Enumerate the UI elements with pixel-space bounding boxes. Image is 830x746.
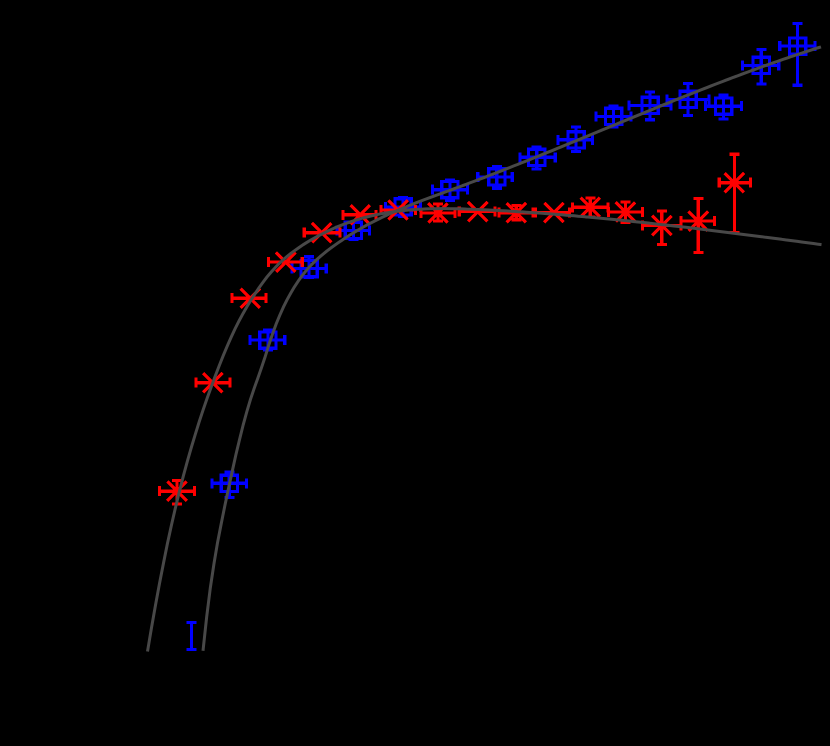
- blue data point B4: square marker with xy error bars: [292, 257, 326, 278]
- blue lone y-error bar B1: [187, 623, 197, 650]
- blue data point B16: square marker with xy error bars: [780, 24, 815, 86]
- blue data point B9: square marker with xy error bars: [520, 147, 555, 169]
- blue data point B13: square marker with xy error bars: [667, 84, 709, 116]
- red data point R13: X marker with xy error bars: [609, 202, 643, 223]
- red data point R14: X marker with xy error bars: [643, 211, 681, 245]
- blue data point B8: square marker with xy error bars: [478, 167, 513, 188]
- red data point R8: X marker with xy error bars: [421, 203, 455, 222]
- blue data point B2: square marker with xy error bars: [212, 472, 247, 498]
- blue data point B10: square marker with xy error bars: [558, 127, 593, 152]
- blue data point B7: square marker with xy error bars: [433, 180, 468, 201]
- red data point R9: X marker with xy error bars: [459, 202, 495, 221]
- red data point R6: X marker with xy error bars: [343, 205, 376, 224]
- red data point R12: X marker with xy error bars: [573, 198, 609, 217]
- red data point R7: X marker with xy error bars: [381, 200, 416, 219]
- red data point R4: X marker with xy error bars: [269, 252, 303, 271]
- red data point R5: X marker with xy error bars: [304, 223, 340, 242]
- red data point R2: X marker with xy error bars: [196, 373, 230, 392]
- blue data point B3: square marker with xy error bars: [250, 330, 285, 350]
- blue data point B12: square marker with xy error bars: [629, 92, 671, 120]
- red data point R16: X marker with xy error bars: [719, 154, 750, 232]
- grey fit curve through blue data: [203, 47, 821, 651]
- red data point R10: X marker with xy error bars: [499, 203, 533, 222]
- blue data point B5: square marker with xy error bars: [337, 222, 369, 240]
- blue data point B15: square marker with xy error bars: [743, 50, 779, 84]
- red data point R11: X marker with xy error bars: [536, 203, 570, 222]
- red data point R15: X marker with xy error bars: [681, 199, 715, 253]
- grey fit curve through red data: [148, 209, 822, 652]
- red data point R3: X marker with xy error bars: [232, 289, 266, 308]
- blue data point B11: square marker with xy error bars: [596, 106, 631, 127]
- blue data point B6: square marker with xy error bars: [386, 198, 421, 217]
- blue data point B14: square marker with xy error bars: [706, 95, 742, 119]
- red data point R1: X marker with xy error bars: [160, 481, 195, 505]
